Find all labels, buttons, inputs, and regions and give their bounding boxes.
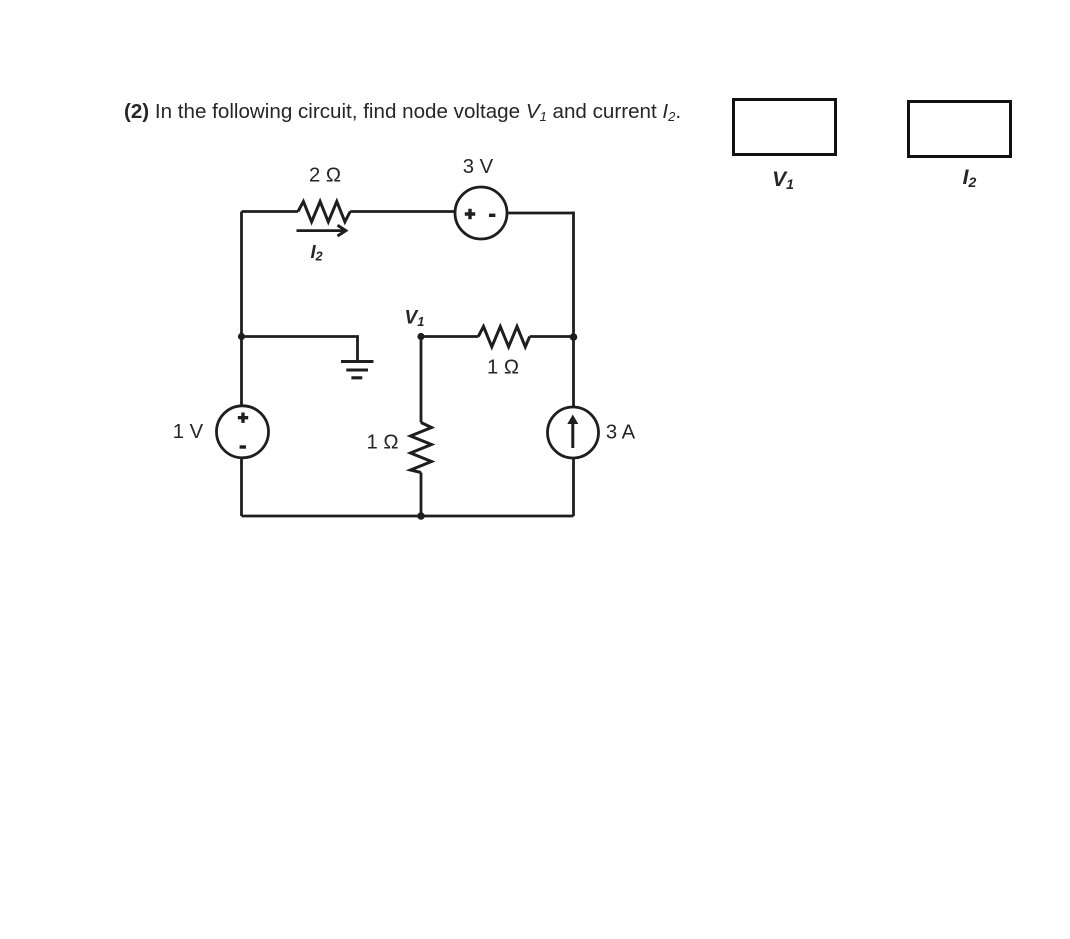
wire: left vertical down to 1V source — [240, 212, 243, 407]
resistor 1ohm vertical — [411, 423, 432, 473]
wire: V1 to horizontal resistor — [421, 335, 478, 338]
current source 3A — [548, 407, 599, 458]
wire: top middle segment — [350, 210, 455, 213]
ground — [341, 362, 374, 378]
svg-text:I2: I2 — [311, 241, 323, 264]
wire: vertical resistor to bottom — [420, 473, 423, 517]
svg-text:1 V: 1 V — [173, 421, 204, 443]
wire: ground branch horizontal — [242, 337, 358, 361]
svg-text:(2) In the following circuit,: (2) In the following circuit, find node … — [124, 100, 681, 124]
wire: 3A source to bottom right corner — [572, 458, 575, 516]
node V1 junction dot — [417, 333, 424, 340]
node junction dot bottom — [417, 512, 425, 520]
answer box V1 — [734, 100, 836, 155]
answer box I2 — [909, 102, 1011, 157]
wire: top right segment — [507, 212, 574, 215]
svg-text:V1: V1 — [772, 168, 794, 192]
svg-text:3 A: 3 A — [606, 422, 636, 444]
svg-text:1 Ω: 1 Ω — [366, 432, 398, 454]
wire: top right corner down to 3A source — [572, 212, 575, 408]
resistor 1ohm horizontal — [478, 327, 529, 347]
svg-text:2 Ω: 2 Ω — [309, 165, 341, 187]
wire: bottom — [242, 515, 574, 518]
current arrow I2 — [297, 229, 344, 232]
wire: V1 down to vertical resistor — [420, 337, 423, 423]
svg-text:V1: V1 — [405, 308, 425, 330]
svg-text:3 V: 3 V — [463, 156, 494, 178]
svg-text:I2: I2 — [963, 166, 977, 190]
svg-text:1 Ω: 1 Ω — [487, 357, 519, 379]
wire: horizontal resistor to right node — [530, 335, 574, 338]
node junction dot right — [570, 333, 578, 341]
voltage source 3V — [455, 187, 507, 239]
wire: 1V source to bottom left corner — [240, 458, 243, 516]
node junction dot left — [238, 333, 245, 340]
wire: top left segment — [242, 210, 299, 213]
voltage source 1V — [217, 406, 269, 458]
resistor 2ohm — [298, 202, 350, 222]
